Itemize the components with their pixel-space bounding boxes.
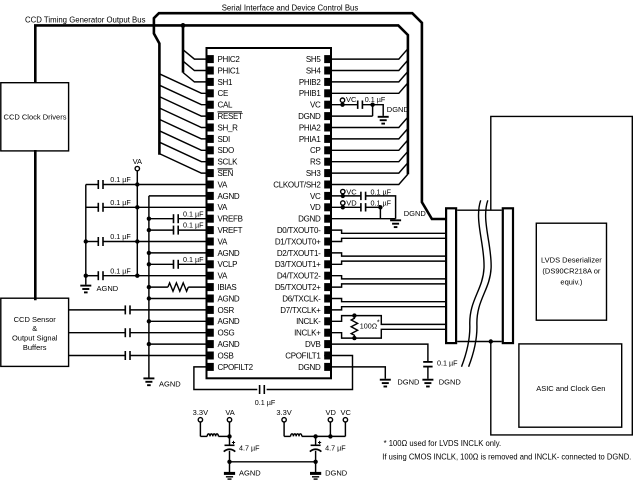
svg-text:PHIA2: PHIA2	[299, 123, 321, 132]
svg-text:DGND: DGND	[387, 105, 410, 114]
svg-text:AGND: AGND	[159, 379, 181, 388]
svg-text:OSR: OSR	[218, 306, 235, 315]
svg-text:SCLK: SCLK	[218, 158, 239, 167]
svg-text:SH_R: SH_R	[218, 123, 239, 132]
svg-text:SH4: SH4	[306, 66, 322, 75]
svg-text:(DS90CR218A or: (DS90CR218A or	[542, 267, 600, 276]
svg-text:AGND: AGND	[218, 294, 240, 303]
svg-text:&: &	[32, 324, 37, 333]
svg-text:VA: VA	[218, 203, 228, 212]
svg-text:DGND: DGND	[325, 469, 348, 478]
svg-text:0.1 µF: 0.1 µF	[365, 95, 386, 104]
svg-text:SDO: SDO	[218, 146, 235, 155]
svg-text:Buffers: Buffers	[23, 343, 47, 352]
svg-text:* 100Ω used for LVDS INCLK onl: * 100Ω used for LVDS INCLK only.	[384, 439, 502, 448]
svg-text:SEN: SEN	[218, 169, 234, 178]
svg-text:VD: VD	[325, 408, 336, 417]
svg-text:AGND: AGND	[218, 340, 240, 349]
svg-text:VD: VD	[346, 199, 357, 208]
svg-text:SH3: SH3	[306, 169, 322, 178]
svg-text:0.1 µF: 0.1 µF	[110, 175, 131, 184]
svg-text:4.7 µF: 4.7 µF	[239, 444, 260, 453]
svg-text:OSG: OSG	[218, 329, 235, 338]
svg-text:INCLK-: INCLK-	[296, 317, 321, 326]
svg-text:If using CMOS INCLK, 100Ω is r: If using CMOS INCLK, 100Ω is removed and…	[382, 453, 631, 462]
svg-text:CCD Sensor: CCD Sensor	[14, 315, 57, 324]
svg-text:RESET: RESET	[218, 112, 244, 121]
svg-text:OSB: OSB	[218, 351, 234, 360]
svg-text:VC: VC	[340, 408, 351, 417]
svg-text:VREFB: VREFB	[218, 215, 243, 224]
svg-text:VC: VC	[346, 95, 357, 104]
svg-text:VA: VA	[218, 237, 228, 246]
svg-text:LVDS Deserializer: LVDS Deserializer	[541, 256, 602, 265]
svg-text:*: *	[377, 318, 380, 327]
svg-text:DGND: DGND	[298, 215, 321, 224]
svg-text:CCD Timing Generator Output Bu: CCD Timing Generator Output Bus	[25, 15, 146, 24]
svg-text:Output Signal: Output Signal	[12, 334, 58, 343]
svg-text:CPOFILT2: CPOFILT2	[218, 363, 254, 372]
svg-text:4.7 µF: 4.7 µF	[325, 444, 346, 453]
svg-text:DGND: DGND	[397, 378, 420, 387]
svg-text:PHIC2: PHIC2	[218, 55, 241, 64]
svg-text:VC: VC	[310, 192, 321, 201]
svg-text:D5/TXOUT2+: D5/TXOUT2+	[275, 283, 321, 292]
svg-text:VC: VC	[310, 101, 321, 110]
svg-text:D7/TXCLK+: D7/TXCLK+	[280, 306, 321, 315]
svg-text:AGND: AGND	[218, 317, 240, 326]
svg-text:D6/TXCLK-: D6/TXCLK-	[282, 294, 321, 303]
svg-text:VC: VC	[346, 187, 357, 196]
svg-text:DVB: DVB	[305, 340, 321, 349]
svg-text:DGND: DGND	[298, 112, 321, 121]
svg-text:VA: VA	[218, 272, 228, 281]
svg-text:VCLP: VCLP	[218, 260, 238, 269]
svg-text:PHIA1: PHIA1	[299, 135, 321, 144]
svg-text:equiv.): equiv.)	[560, 278, 582, 287]
svg-text:0.1 µF: 0.1 µF	[371, 199, 392, 208]
svg-text:DGND: DGND	[298, 363, 321, 372]
svg-text:RS: RS	[310, 158, 321, 167]
svg-text:0.1 µF: 0.1 µF	[110, 198, 131, 207]
svg-text:AGND: AGND	[97, 284, 119, 293]
svg-text:PHIB2: PHIB2	[299, 78, 321, 87]
svg-text:3.3V: 3.3V	[193, 408, 208, 417]
svg-text:VREFT: VREFT	[218, 226, 243, 235]
svg-text:DGND: DGND	[404, 209, 427, 218]
svg-text:0.1 µF: 0.1 µF	[110, 266, 131, 275]
svg-text:100Ω: 100Ω	[360, 322, 378, 331]
svg-text:AGND: AGND	[218, 249, 240, 258]
svg-text:VA: VA	[225, 408, 234, 417]
svg-text:SDI: SDI	[218, 135, 231, 144]
svg-text:ASIC and Clock Gen: ASIC and Clock Gen	[536, 384, 605, 393]
svg-text:0.1 µF: 0.1 µF	[183, 221, 204, 230]
svg-text:CLKOUT/SH2: CLKOUT/SH2	[273, 180, 321, 189]
svg-text:INCLK+: INCLK+	[294, 329, 321, 338]
svg-text:CP: CP	[310, 146, 321, 155]
svg-text:D2/TXOUT1-: D2/TXOUT1-	[277, 249, 321, 258]
svg-text:SH1: SH1	[218, 78, 234, 87]
svg-text:IBIAS: IBIAS	[218, 283, 237, 292]
svg-text:SH5: SH5	[306, 55, 322, 64]
svg-text:CCD Clock Drivers: CCD Clock Drivers	[4, 113, 67, 122]
svg-text:VA: VA	[133, 157, 142, 166]
svg-text:D3/TXOUT1+: D3/TXOUT1+	[275, 260, 321, 269]
svg-text:VD: VD	[310, 203, 321, 212]
svg-text:0.1 µF: 0.1 µF	[183, 209, 204, 218]
svg-text:D4/TXOUT2-: D4/TXOUT2-	[277, 272, 321, 281]
svg-text:CE: CE	[218, 89, 229, 98]
svg-text:PHIB1: PHIB1	[299, 89, 321, 98]
svg-text:0.1 µF: 0.1 µF	[255, 398, 276, 407]
svg-text:CPOFILT1: CPOFILT1	[285, 351, 321, 360]
svg-text:3.3V: 3.3V	[276, 408, 291, 417]
svg-text:0.1 µF: 0.1 µF	[437, 359, 458, 368]
svg-text:DGND: DGND	[439, 378, 462, 387]
svg-text:0.1 µF: 0.1 µF	[371, 187, 392, 196]
svg-text:0.1 µF: 0.1 µF	[183, 255, 204, 264]
svg-text:VA: VA	[218, 180, 228, 189]
svg-text:Serial Interface and Device Co: Serial Interface and Device Control Bus	[222, 4, 359, 13]
svg-text:AGND: AGND	[239, 469, 261, 478]
svg-text:CAL: CAL	[218, 101, 234, 110]
svg-text:D0/TXOUT0-: D0/TXOUT0-	[277, 226, 321, 235]
svg-text:PHIC1: PHIC1	[218, 66, 241, 75]
svg-text:D1/TXOUT0+: D1/TXOUT0+	[275, 237, 321, 246]
svg-text:AGND: AGND	[218, 192, 240, 201]
svg-text:0.1 µF: 0.1 µF	[110, 232, 131, 241]
